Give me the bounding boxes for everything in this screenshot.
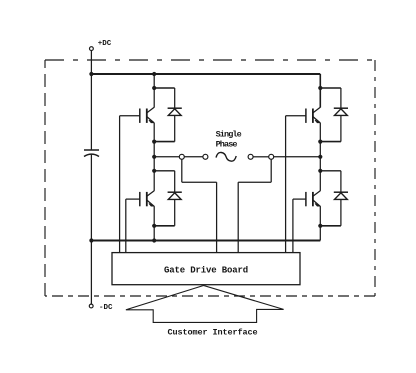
Gate Drive Board box — [112, 253, 300, 285]
wire sense horizontal left — [182, 181, 217, 183]
wire left leg upper — [153, 74, 155, 108]
svg-text:Customer Interface: Customer Interface — [168, 328, 258, 338]
wire Q3 gate lead — [286, 115, 306, 117]
wire sense horizontal right — [238, 181, 271, 183]
svg-text:Single: Single — [216, 129, 242, 139]
svg-text:Gate Drive Board: Gate Drive Board — [164, 265, 248, 275]
svg-text:Phase: Phase — [216, 139, 238, 149]
wire gate line Q2 to board — [125, 199, 127, 253]
border enclosure bottom — [45, 295, 375, 297]
wire sense vertical left to board — [216, 182, 218, 252]
wire gate line Q3 to board — [285, 116, 287, 253]
wire sense drop from P1 — [181, 159, 183, 182]
terminal P3 — [248, 154, 253, 159]
diode D3 (antiparallel of Q3) — [320, 88, 348, 142]
wire right leg mid2 — [319, 206, 321, 240]
node: junction dots — [89, 72, 322, 243]
wire Q4 gate lead — [293, 198, 306, 200]
transistor Q1 top-left IGBT — [140, 107, 154, 123]
wire left DC rail upper — [90, 74, 92, 150]
svg-text:+DC: +DC — [98, 40, 112, 48]
AC load sine symbol — [216, 152, 236, 161]
wire sense vertical right to board — [237, 182, 239, 252]
wire phase output right — [274, 156, 321, 158]
border dash-dot enclosure top — [45, 59, 375, 61]
wire left leg mid2 — [153, 206, 155, 240]
wire sense drop from P4 — [270, 159, 272, 182]
wire P3 to P4 — [253, 156, 269, 158]
transistor Q3 top-right IGBT — [306, 107, 320, 123]
border enclosure left — [44, 60, 46, 296]
wire right leg drop from bus — [319, 74, 321, 108]
terminal -DC — [89, 304, 93, 308]
customer interface block arrow — [126, 286, 284, 323]
wire P1 to P2 — [184, 156, 203, 158]
wire left leg mid1 — [153, 123, 155, 191]
wire +DC lead down — [90, 51, 92, 74]
transistor Q2 bottom-left IGBT — [140, 191, 154, 207]
wire top DC bus — [91, 73, 320, 75]
wire Q1 gate lead — [120, 115, 140, 117]
wire Q2 gate lead — [126, 198, 140, 200]
border enclosure right — [374, 60, 376, 296]
wire phase output left — [154, 156, 179, 158]
diode D2 (antiparallel of Q2) — [154, 171, 182, 226]
svg-text:-DC: -DC — [99, 304, 113, 312]
wire right leg mid1 — [319, 123, 321, 191]
terminal P2 — [203, 154, 208, 159]
transistor Q4 bottom-right IGBT — [306, 191, 320, 207]
diode D1 (antiparallel of Q1) — [154, 88, 182, 142]
terminal +DC — [90, 47, 94, 51]
terminal P4 — [269, 154, 274, 159]
diode D4 (antiparallel of Q4) — [320, 171, 348, 226]
wire gate line Q4 to board — [292, 199, 294, 253]
terminal P1 — [179, 154, 184, 159]
wire left DC rail lower — [90, 155, 92, 304]
wire gate line Q1 to board — [119, 116, 121, 253]
wire bottom DC bus — [91, 240, 320, 242]
capacitor C1 — [84, 149, 99, 151]
